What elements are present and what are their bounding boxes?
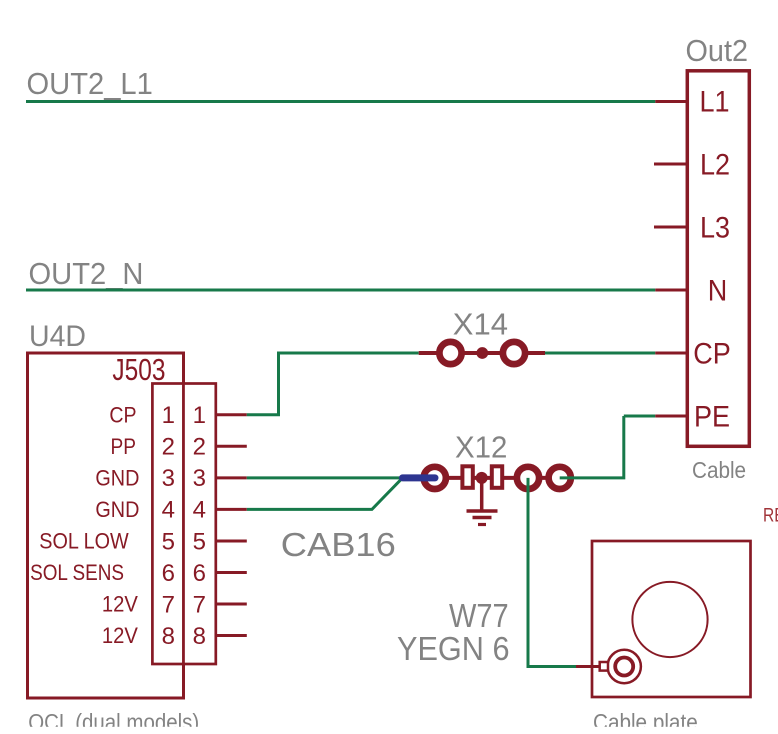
svg-text:OUT2_L1: OUT2_L1 <box>27 67 153 101</box>
svg-text:YEGN 6: YEGN 6 <box>397 630 510 667</box>
wire stub PE maroon <box>655 415 688 418</box>
pin 3 stub <box>216 476 247 479</box>
svg-text:X14: X14 <box>453 306 508 341</box>
wire X12 circle3 to cable plate <box>528 478 576 667</box>
svg-text:GND: GND <box>95 467 139 491</box>
svg-text:6: 6 <box>162 560 175 587</box>
svg-text:2: 2 <box>193 434 206 461</box>
ground bar 1 <box>467 509 498 513</box>
svg-text:6: 6 <box>193 560 206 587</box>
svg-text:3: 3 <box>162 465 175 492</box>
ground stem <box>480 478 484 510</box>
wire OUT2_L1 green <box>26 100 655 103</box>
wire X14 to Out2 CP <box>545 352 655 355</box>
pin 2 stub <box>216 445 247 448</box>
wire PE horizontal <box>624 415 656 418</box>
wire stub N maroon <box>655 289 688 292</box>
connector Out2 box <box>687 71 749 447</box>
svg-text:L3: L3 <box>700 211 730 245</box>
svg-text:Out2: Out2 <box>686 34 748 68</box>
svg-text:4: 4 <box>162 497 175 524</box>
svg-text:4: 4 <box>193 497 206 524</box>
svg-text:W77: W77 <box>449 597 509 634</box>
svg-text:PE: PE <box>694 400 730 434</box>
svg-text:J503: J503 <box>112 352 165 386</box>
svg-text:3: 3 <box>193 465 206 492</box>
cable core marker blue <box>403 474 436 481</box>
pin 5 stub <box>216 540 247 543</box>
wire X12 to PE riser <box>560 416 624 478</box>
pin 6 stub <box>216 571 247 574</box>
connector J503 left column box <box>152 384 183 665</box>
svg-text:CAB16: CAB16 <box>281 527 396 563</box>
gland outer circle <box>608 650 641 683</box>
wire stub CP maroon <box>655 352 688 355</box>
pin 4 stub <box>216 508 247 511</box>
ground bar 2 <box>473 516 492 520</box>
bottom clip band <box>0 727 778 734</box>
svg-text:PP: PP <box>111 435 137 460</box>
svg-text:1: 1 <box>162 402 175 429</box>
junction dot X12 <box>476 472 488 484</box>
device U4D box <box>28 353 184 698</box>
terminal X12 fuse 2 <box>492 466 502 488</box>
terminal X14 circle 1 <box>439 342 461 364</box>
pin 1 stub <box>216 413 247 416</box>
pin 8 stub <box>216 634 247 637</box>
svg-text:L1: L1 <box>699 85 729 119</box>
svg-text:GND: GND <box>95 498 139 522</box>
svg-text:U4D: U4D <box>29 320 86 353</box>
terminal X14 circle 2 <box>503 342 525 364</box>
svg-text:CP: CP <box>693 337 730 371</box>
wire stub L1 maroon <box>655 100 688 103</box>
svg-text:12V: 12V <box>102 593 138 617</box>
terminal X12 circle 3 <box>517 467 539 489</box>
pin L2 stub <box>654 163 687 166</box>
svg-text:CP: CP <box>109 403 136 427</box>
wire GND pin3 green <box>247 476 403 479</box>
wire CP pin1 to X14 <box>247 353 419 415</box>
svg-text:5: 5 <box>162 528 175 555</box>
wire stub cable plate maroon <box>576 665 601 668</box>
svg-text:8: 8 <box>162 623 175 650</box>
svg-text:7: 7 <box>193 591 206 618</box>
svg-text:RE: RE <box>763 504 778 526</box>
svg-text:L2: L2 <box>700 148 730 182</box>
pin 7 stub <box>216 603 247 606</box>
junction dot X14 <box>476 347 488 359</box>
terminal X12 internal wire <box>435 476 560 480</box>
svg-text:5: 5 <box>193 528 206 555</box>
connector J503 right column box <box>184 384 216 665</box>
svg-text:12V: 12V <box>102 624 138 648</box>
svg-text:7: 7 <box>162 591 175 618</box>
svg-text:N: N <box>708 274 727 308</box>
svg-text:8: 8 <box>193 623 206 650</box>
svg-text:OUT2_N: OUT2_N <box>29 257 144 291</box>
terminal X12 circle 1 <box>424 467 446 489</box>
svg-text:X12: X12 <box>455 431 507 465</box>
terminal X12 circle 4 <box>549 467 571 489</box>
pin L3 stub <box>654 226 687 229</box>
gland tab <box>600 662 608 671</box>
svg-text:1: 1 <box>193 402 206 429</box>
wire OUT2_N green <box>26 289 655 292</box>
ground bar 3 <box>478 523 486 526</box>
svg-text:2: 2 <box>162 434 175 461</box>
svg-text:Cable: Cable <box>692 457 746 483</box>
terminal X12 fuse 1 <box>462 466 472 488</box>
svg-text:SOL SENS: SOL SENS <box>30 561 124 586</box>
terminal X14 internal wire <box>419 351 545 355</box>
gland inner ring <box>615 658 633 676</box>
svg-text:SOL LOW: SOL LOW <box>39 530 129 554</box>
cable plate box <box>592 541 751 697</box>
cable plate hole circle <box>632 582 707 657</box>
wire GND pin4 green <box>247 478 403 510</box>
